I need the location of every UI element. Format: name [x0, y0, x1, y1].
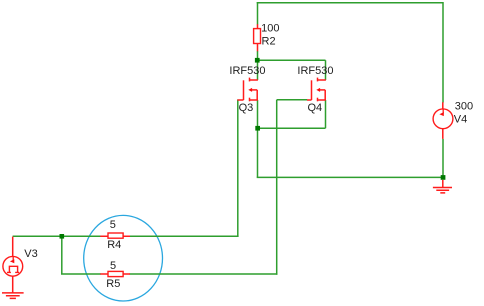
svg-text:V3: V3 [24, 248, 37, 260]
svg-text:R4: R4 [107, 239, 121, 251]
svg-text:Q4: Q4 [308, 102, 323, 114]
svg-text:IRF530: IRF530 [297, 65, 333, 77]
svg-text:300: 300 [455, 100, 473, 112]
svg-text:V4: V4 [454, 114, 467, 126]
svg-text:Q3: Q3 [239, 102, 254, 114]
svg-text:5: 5 [110, 260, 116, 272]
svg-text:100: 100 [261, 23, 279, 35]
svg-text:R5: R5 [106, 278, 120, 290]
svg-text:IRF530: IRF530 [229, 65, 265, 77]
svg-text:5: 5 [110, 219, 116, 231]
svg-text:R2: R2 [262, 36, 276, 48]
